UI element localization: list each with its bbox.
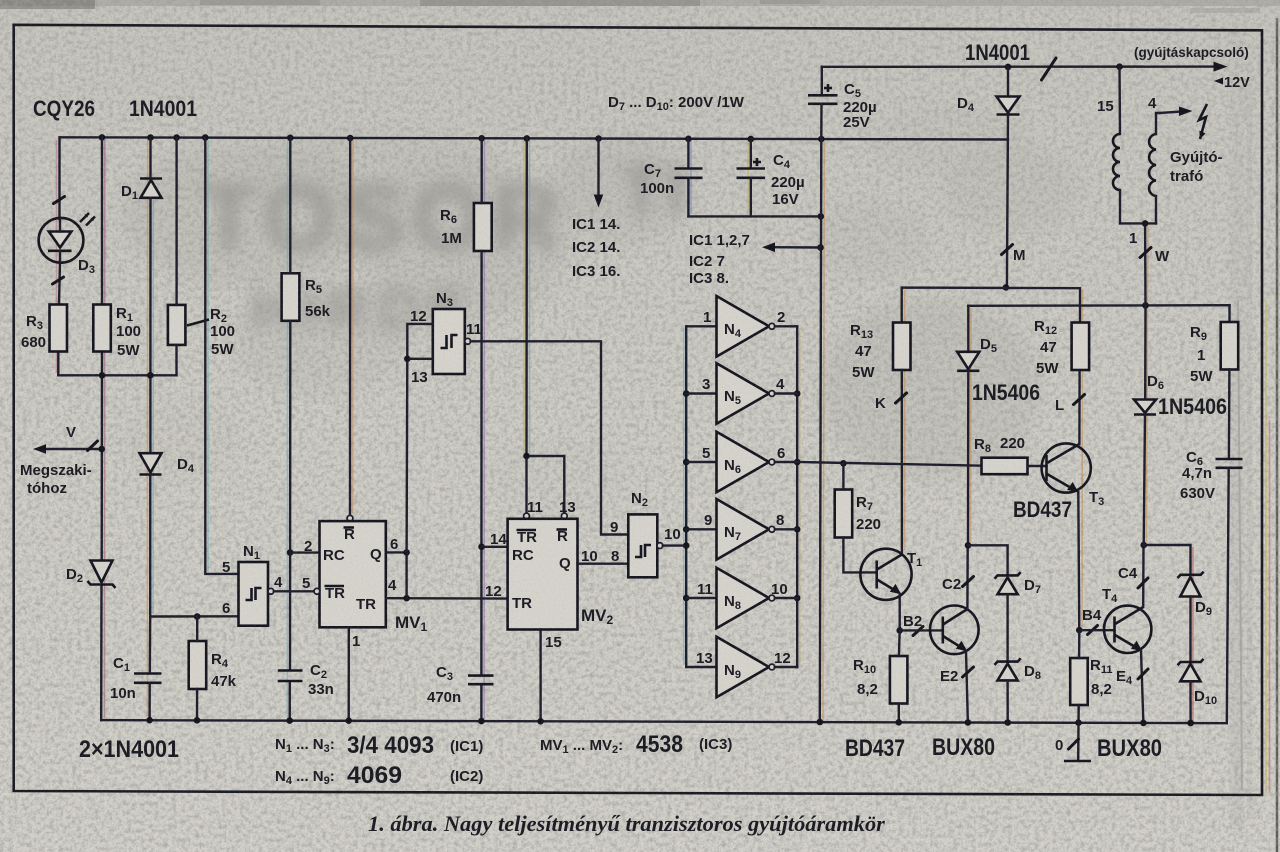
wire: top supply bus [60,137,1008,139]
transistor T3 BD437 [1042,370,1091,630]
node C4 [1138,578,1148,588]
inverter N5 [686,363,797,424]
node E4 [1138,669,1148,679]
wire: MV1 pin1 to ground bus [348,627,350,720]
resistor R5 [282,273,300,321]
wire: +12V rail [822,65,1218,68]
monostable MV2 (4538) [508,519,578,630]
capacitor C3 [468,676,494,685]
capacitor C2 [278,671,303,682]
node L [1074,395,1085,405]
wire: MV2 RC pin14 [482,546,508,548]
right page crease [1230,30,1244,830]
right page edge dark line [1276,18,1279,852]
wire: rail to MV1 R-bar top pin [349,138,352,515]
frame border colour fringe [1265,300,1267,793]
wire: R7 feed and to T1 base [842,463,844,489]
resistor R2 [168,305,186,345]
inverter N4 [686,296,797,357]
schmitt gate N3 [433,309,465,374]
wire: D1/D4 rail [149,138,151,179]
wire: rail to MV2 R pins loop [527,138,565,515]
wire: drive row N6 output to R8/T3 [797,462,981,466]
zener diode D10 [1178,659,1204,682]
wire: D7/D8 branch [968,545,1008,575]
node E2 [963,667,974,677]
resistor R11 [1070,658,1088,705]
wire: MV2 pin15 to ground bus [539,630,541,722]
ignition switch slash [1042,58,1057,80]
wire: M line [1007,115,1008,288]
node C2 [963,577,974,587]
resistor R3 [50,305,68,352]
ignition transformer primary [1113,67,1120,224]
wire: bottom join of R3/R1/D1/R2 [58,374,176,376]
zener diode D7 [995,572,1021,594]
wire: ground rail from C5 down [820,139,822,723]
resistor R13 [893,323,911,371]
transistor T4 BUX80 [1104,545,1151,723]
wire: clamp row to R9 [968,304,1229,307]
N3 output pin 11 bubble and wire to N2 pin9 [465,338,471,344]
wire: W line from transformer [1144,223,1147,305]
N2 output bubble and wire to inverter input rail [657,543,663,549]
resistor R9 [1228,305,1230,322]
spark lightning bolt [1199,104,1207,139]
node B4 [1076,627,1083,634]
wire: MV1 pin4 TR row to MV2 pin12 [386,597,508,600]
scanner dark top edge [0,0,1280,6]
node B2 [896,627,903,634]
ground symbol node 0 [1064,723,1091,761]
diode D6 [1134,400,1156,546]
inverter N9 [686,637,797,698]
diode D5 with feed [957,306,979,546]
N3 input wires pins 12 13 [407,324,433,359]
wire: N3 input feed vertical [405,552,407,598]
scan colour fringing on long wires [57,140,1193,721]
schmitt gate N2 [628,514,657,577]
wire: rail to N1 pin5 [205,138,238,574]
LED D3 [39,197,95,285]
resistor R10 [890,656,908,704]
wire: K line R13 to T1 collector [901,370,904,554]
transistor T2 BUX80 [930,545,979,723]
MV1 TRbar input bubble [314,588,320,594]
wire: R1/D2 rail [101,137,103,304]
arrow: supply annotation down arrow [594,139,604,208]
node dots on top bus [99,134,825,142]
wire: R6/C3 rail [481,138,483,203]
capacitor C5 electrolytic [808,67,838,139]
resistor R4 [189,641,207,689]
node V / wire to Megszakítóhoz with arrow [33,441,105,454]
wire: inverter input rail [685,326,687,667]
schmitt gate N1 [239,562,269,626]
resistor R12 [1072,323,1090,371]
resistor R1 [93,305,111,352]
zener diode D2 [88,561,116,589]
resistor R8 (horizontal) [982,458,1028,475]
transistor T1 BD437 [860,549,911,631]
capacitor C6 [1216,370,1243,724]
inverter N6 [686,432,797,493]
monostable MV1 (4538) [320,521,386,627]
label +12V [1214,78,1223,85]
inverter N7 [686,499,797,560]
wire: MV2 Q pin10 to N2 pin8 [578,563,629,565]
inverter N8 [686,568,797,629]
capacitor C1 [134,617,162,721]
resistor R6 [474,203,492,251]
capacitor C7 [675,139,703,217]
wire: D9/D10 branch [1144,545,1191,575]
wire: MV1 Q pin6 to N3 inputs rail [386,551,407,553]
wire: bottom ground bus [101,720,1227,723]
arrow: IC ground annotation [762,242,821,252]
ignition transformer secondary [1149,113,1160,223]
label R2 100 5W with pointer [187,320,209,326]
diode D4 (top) [997,67,1020,115]
wire: LED/R3 branch [58,137,60,219]
zener diode D8 [995,658,1021,680]
wire: C7/C4 ground row [688,215,820,217]
diode D4 (left column) [140,453,162,474]
zener diode D9 [1178,572,1204,597]
wire: R13/M/R12 top row [902,288,1080,323]
wire: inverter output rail [796,326,798,667]
wire: R5/C2 rail [289,138,291,273]
wire: D4/R4/N1-pin6 row [150,615,238,618]
N1 output bubble and wire to MV1 [268,588,274,594]
resistor R7 [835,490,853,538]
capacitor C4 electrolytic [737,139,766,216]
wire: transformer bottom join [1120,222,1156,224]
wire: MV1 RC pin2 [290,551,319,553]
diode D1 [140,179,162,198]
